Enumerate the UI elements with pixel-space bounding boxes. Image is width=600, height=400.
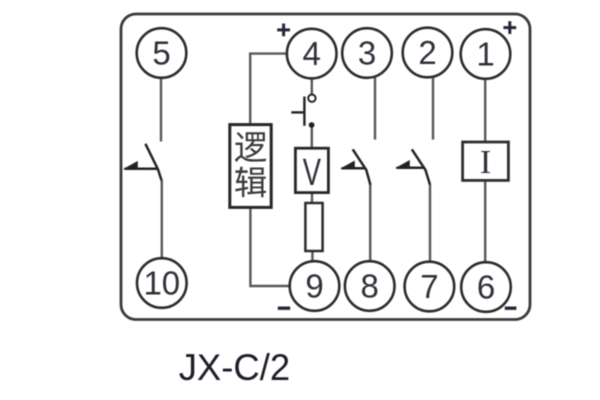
wire: current element I to terminal 6	[484, 180, 486, 263]
terminal 10	[137, 258, 187, 308]
svg-text:5: 5	[152, 35, 170, 72]
svg-text:6: 6	[477, 269, 495, 306]
svg-text:8: 8	[361, 268, 379, 305]
wire: terminal 1 to current element I	[484, 79, 486, 143]
svg-text:1: 1	[476, 36, 494, 73]
resistor R	[305, 203, 322, 251]
svg-text:3: 3	[358, 35, 376, 72]
polarity plus at terminal 4	[277, 24, 290, 37]
terminal 3	[342, 28, 392, 78]
svg-text:V: V	[303, 152, 321, 194]
wire: contact K3 to terminal 7	[429, 185, 431, 263]
relay case outline frame	[121, 14, 530, 320]
contact K2 (between terminals 3 and 8)	[342, 149, 371, 185]
wire: resistor R to terminal 9	[311, 251, 313, 262]
svg-text:JX-C/2: JX-C/2	[179, 347, 291, 388]
terminal 5	[137, 28, 187, 78]
wire: V element to resistor R	[311, 193, 313, 204]
wire: terminal 4 to logic block (top branch)	[250, 54, 287, 125]
logic block U1 (box)	[230, 125, 271, 208]
wire: contact K1 to terminal 10	[161, 180, 163, 259]
contact K1 (between terminals 5 and 10)	[125, 144, 162, 181]
wire: terminal 3 to contact K2	[374, 78, 376, 140]
svg-text:2: 2	[418, 34, 436, 71]
polarity plus at terminal 1	[503, 21, 516, 34]
polarity minus at terminal 9	[278, 307, 290, 310]
terminal 2	[403, 28, 453, 78]
wire: terminal 2 to contact K3	[432, 77, 434, 140]
current element I (box)	[463, 142, 509, 180]
pushbutton contact S (between terminal 4 and V element)	[291, 95, 315, 128]
terminal 1	[461, 29, 511, 79]
logic block label char LUO	[235, 132, 267, 162]
terminal 6	[461, 262, 511, 312]
terminal 8	[345, 261, 395, 311]
logic block label char JI	[235, 166, 266, 197]
svg-text:7: 7	[420, 268, 438, 305]
svg-text:I: I	[480, 144, 491, 181]
wire: contact K2 to terminal 8	[369, 185, 371, 262]
contact K3 (between terminals 2 and 7)	[397, 149, 431, 185]
wire: terminal 4 to pushbutton contact	[311, 78, 313, 94]
svg-text:10: 10	[143, 265, 180, 302]
wire: logic block to terminal 9 (bottom branch)	[250, 207, 290, 286]
svg-text:4: 4	[303, 35, 321, 72]
svg-text:9: 9	[305, 268, 323, 305]
polarity minus at terminal 6	[505, 307, 517, 310]
terminal 7	[405, 262, 455, 312]
wire: pushbutton contact to V element	[311, 125, 313, 149]
voltage element V (box)	[295, 148, 328, 192]
terminal 9	[290, 261, 340, 311]
terminal 4	[287, 29, 337, 79]
wire: terminal 5 to contact K1	[160, 78, 162, 142]
